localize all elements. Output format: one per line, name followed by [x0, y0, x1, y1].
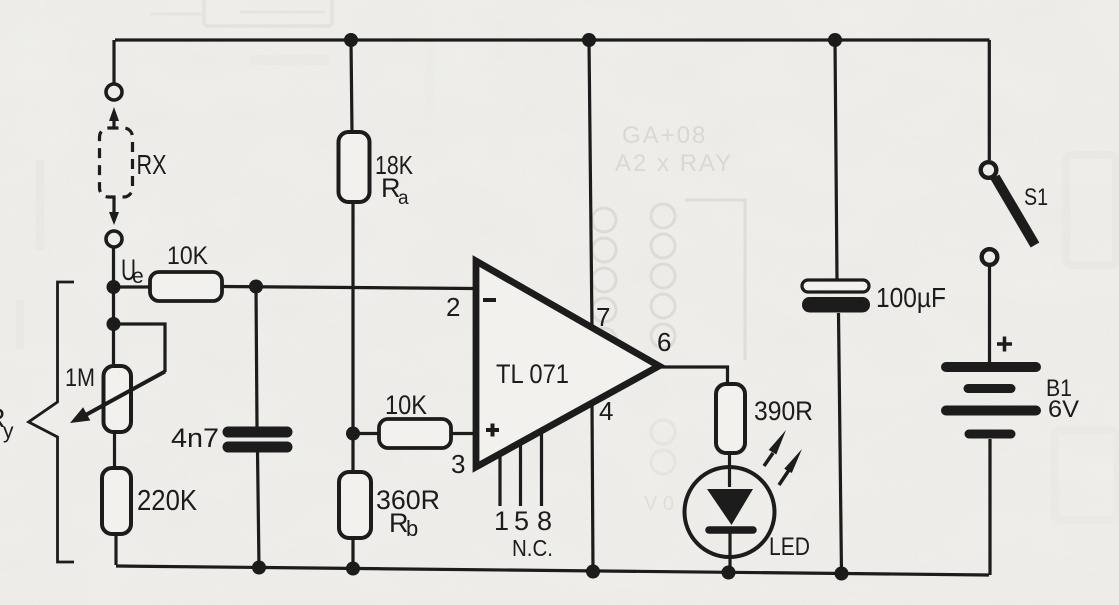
battery plate short 1: [968, 384, 1011, 393]
switch S1 blade: [995, 177, 1035, 245]
LED cathode bar: [709, 526, 753, 534]
node dot pin3 branch: [346, 427, 360, 441]
node dot pin4 rail: [586, 565, 600, 579]
node dot 100uF top: [828, 33, 842, 47]
svg-text:LED: LED: [769, 533, 810, 561]
sensor RX dashed box: [100, 128, 133, 197]
node dot 18K top: [344, 33, 358, 47]
wire output pin6: [656, 367, 728, 386]
node dot 100uF rail: [835, 567, 849, 581]
wire pin 4: [592, 403, 593, 572]
wire 10K to op-amp pin2: [222, 287, 474, 289]
wire battery to rail: [988, 439, 991, 575]
svg-text:10K: 10K: [167, 242, 208, 270]
node dot pin7 top: [582, 33, 596, 47]
node dot 4n7: [249, 280, 263, 294]
op-amp plus input mark: [486, 424, 499, 437]
connector terminal top: [106, 84, 122, 100]
resistor 360R body: [339, 472, 371, 538]
bracket Ry: [29, 282, 74, 562]
svg-text:a: a: [398, 188, 409, 209]
wire wiper loop: [114, 324, 166, 372]
svg-text:TL 071: TL 071: [496, 359, 569, 389]
wire 390R to LED: [728, 453, 731, 487]
wire 100uF lower: [839, 313, 842, 574]
node dot Ue: [107, 280, 121, 294]
wire 220K to rail: [114, 534, 117, 565]
wire left column middle: [112, 247, 115, 365]
op-amp minus input mark: [483, 298, 496, 302]
node dot LED rail: [722, 566, 736, 580]
wire pot to 220K: [113, 433, 116, 468]
op-amp U1 TL071 triangle: [476, 261, 659, 467]
svg-text:1: 1: [494, 506, 509, 536]
svg-text:e: e: [132, 265, 144, 288]
svg-text:10K: 10K: [385, 390, 427, 420]
switch terminal bottom: [982, 249, 998, 265]
svg-text:220K: 220K: [137, 485, 198, 517]
battery plate long 1: [946, 362, 1036, 372]
resistor 10K bottom body: [379, 419, 451, 448]
svg-text:7: 7: [596, 302, 610, 332]
resistor 220K body: [102, 468, 131, 534]
capacitor 4n7: [228, 427, 287, 438]
wire NC pin 5: [519, 444, 522, 506]
light arrow 1: [764, 453, 773, 466]
svg-text:2: 2: [446, 292, 460, 322]
wire switch to battery: [988, 267, 991, 363]
svg-text:390R: 390R: [754, 396, 813, 426]
wiper arrow: [82, 372, 165, 418]
node dot 4n7 rail: [252, 561, 266, 575]
svg-text:A2 x RAY: A2 x RAY: [615, 150, 733, 177]
arrow up into terminal: [112, 119, 115, 128]
battery plate long 2: [946, 406, 1036, 416]
connector terminal bottom: [106, 231, 122, 247]
wire Ue to 10K: [114, 285, 151, 288]
svg-text:b: b: [406, 516, 418, 541]
wire 100uF upper: [835, 40, 837, 280]
battery plate short 2: [969, 430, 1011, 439]
node dot wiper: [107, 317, 121, 331]
arrow down to terminal: [112, 198, 115, 213]
svg-text:3: 3: [451, 449, 465, 479]
wire NC pin 8: [540, 432, 543, 506]
LED circle: [685, 467, 775, 557]
wire 360R to rail: [351, 538, 354, 569]
svg-text:1M: 1M: [65, 364, 95, 392]
svg-text:RX: RX: [137, 149, 167, 180]
wire to 10K bottom: [353, 432, 379, 435]
svg-text:5: 5: [514, 506, 529, 536]
LED triangle: [707, 489, 753, 525]
light arrow 2: [779, 470, 789, 485]
svg-text:4: 4: [599, 396, 613, 426]
resistor 18K body: [339, 132, 370, 202]
resistor 10K top body: [150, 272, 222, 301]
node dot 360R rail: [346, 562, 360, 576]
capacitor 100uF top plate: [802, 280, 869, 292]
battery plus sign: [997, 337, 1012, 352]
wire left column top: [112, 40, 115, 83]
wire right column top: [988, 40, 991, 160]
wire 4n7 branch upper: [256, 287, 257, 428]
wire NC pin 1: [498, 456, 501, 506]
switch terminal top: [981, 162, 997, 178]
svg-text:N.C.: N.C.: [512, 535, 553, 561]
capacitor 100uF bottom plate: [802, 297, 870, 313]
svg-text:100µF: 100µF: [876, 282, 946, 313]
wire 18K top: [351, 40, 352, 132]
svg-text:8: 8: [537, 506, 552, 536]
wire top rail: [115, 38, 990, 41]
svg-text:4n7: 4n7: [171, 423, 219, 453]
wire 4n7 branch lower: [258, 451, 260, 568]
svg-text:6V: 6V: [1048, 396, 1079, 423]
svg-text:GA+08: GA+08: [622, 122, 707, 149]
wire pin 7: [589, 40, 592, 329]
resistor 390R body: [716, 384, 745, 453]
wire 10K bottom to pin3: [451, 432, 474, 435]
svg-text:6: 6: [657, 327, 671, 357]
potentiometer 1M body: [104, 366, 132, 432]
wire bottom rail: [116, 566, 989, 575]
wire 18K to 360R: [351, 204, 354, 472]
wire LED to rail: [728, 530, 731, 573]
svg-text:V 0: V 0: [644, 493, 674, 515]
svg-text:y: y: [3, 420, 14, 443]
svg-text:S1: S1: [1024, 184, 1048, 211]
